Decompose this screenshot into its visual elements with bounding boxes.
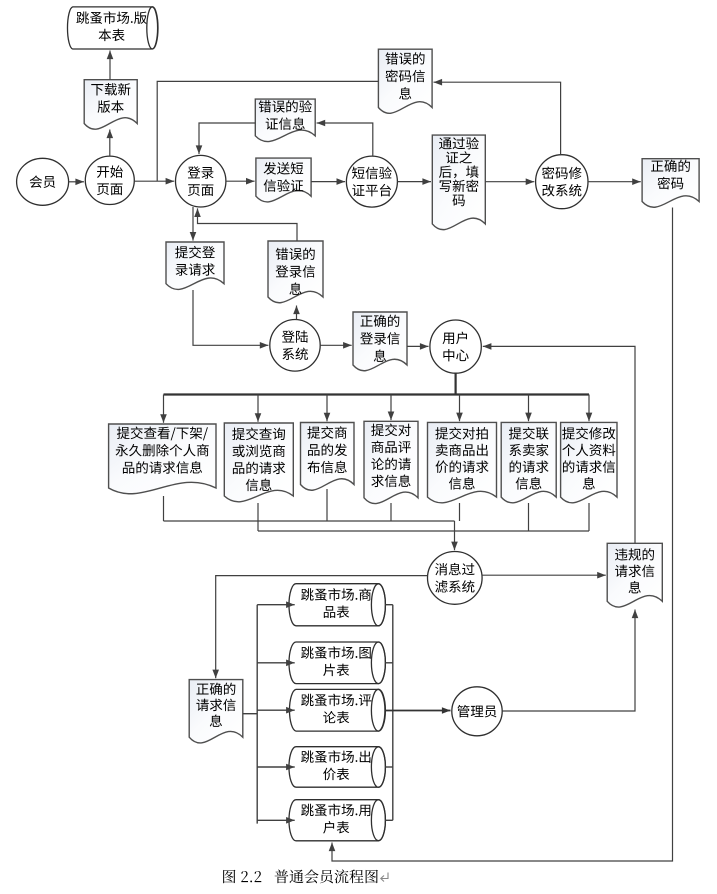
wire 消息过滤系统 left-down to 正确的请求信息 bbox=[216, 576, 428, 679]
document 通过验证之后填写新密码 bbox=[432, 135, 485, 230]
document 提交商品的发布信息 bbox=[301, 423, 355, 491]
wire bus drop 4 into request document 4 bbox=[390, 395, 392, 421]
process circle 开始页面 bbox=[85, 156, 134, 204]
process circle 用户中心 bbox=[430, 320, 481, 373]
wire 正确的请求信息 to left trunk bbox=[243, 713, 257, 715]
wire right trunk vertical bbox=[392, 605, 394, 821]
data store cylinder 跳蚤市场.版本表 bbox=[67, 7, 157, 49]
wire 短信验证平台 to 通过验证之后填写新密码 bbox=[397, 181, 431, 183]
document 提交对拍卖商品出价的请求信息 bbox=[428, 422, 497, 502]
wire stem from 提交查看 document bbox=[163, 496, 165, 521]
wire 管理员 right-up to 违规的请求信息 bbox=[502, 610, 635, 712]
wire 错误的密码信息 left-down joins main line bbox=[157, 81, 378, 181]
wire stem from 提交对商品评论 document bbox=[390, 503, 392, 521]
document 正确的请求信息 bbox=[189, 680, 243, 743]
document 提交查询或浏览商品的请求信息 bbox=[224, 423, 293, 502]
wire 密码修改系统 up-left to 错误的密码信息 bbox=[434, 82, 561, 155]
process circle 会员 bbox=[17, 158, 69, 205]
process circle 短信验证平台 bbox=[346, 156, 397, 207]
wire stem from 提交商品发布 document bbox=[326, 489, 328, 521]
document 提交对商品评论的请求信息 bbox=[364, 421, 418, 503]
wire stub 商品表 to right trunk bbox=[385, 604, 392, 606]
document 错误的验证信息 bbox=[255, 99, 315, 141]
data store cylinder 跳蚤市场.用户表 bbox=[289, 800, 385, 841]
document 提交查看/下架/永久删除个人商品的请求信息 bbox=[109, 424, 216, 494]
data store cylinder 跳蚤市场.图片表 bbox=[289, 642, 385, 684]
document 发送短信验证 bbox=[256, 158, 311, 202]
wire 评论表 to 管理员 bbox=[385, 710, 450, 712]
wire 正确的登录信息 to 用户中心 bbox=[407, 345, 429, 347]
document 正确的登录信息 bbox=[353, 312, 407, 371]
wire branch to 图片表 bbox=[257, 662, 295, 664]
wire 密码修改系统 to 正确的密码 bbox=[588, 181, 641, 183]
wire 开始页面 to 登录页面 bbox=[134, 180, 174, 182]
document 错误的密码信息 bbox=[378, 49, 432, 113]
process circle 密码修改系统 bbox=[536, 155, 588, 209]
document 提交联系卖家的请求信息 bbox=[501, 422, 556, 502]
wire branch to 评论表 bbox=[257, 709, 295, 711]
wire bus drop 3 into request document 3 bbox=[326, 395, 328, 422]
data store cylinder 跳蚤市场.出价表 bbox=[289, 747, 385, 788]
document 错误的登录信息 bbox=[268, 241, 323, 303]
document 下载新版本 bbox=[84, 80, 137, 130]
wire 登录页面 to 发送短信验证 bbox=[226, 180, 255, 182]
wire 登陆系统 to 正确的登录信息 bbox=[320, 344, 352, 346]
wire collector upper bbox=[164, 520, 455, 522]
wire 用户中心 stem to bus bbox=[455, 373, 457, 394]
process circle 登录页面 bbox=[176, 155, 226, 207]
wire 错误的验证信息 left-down to 登录页面 top bbox=[199, 123, 255, 154]
document 违规的请求信息 bbox=[607, 543, 662, 607]
wire stub 用户表 to right trunk bbox=[385, 819, 392, 821]
wire stem from 提交联系卖家 document bbox=[528, 503, 530, 531]
caption 图 2.2 普通会员流程图 bbox=[223, 870, 261, 883]
wire collector down into 消息过滤系统 bbox=[454, 521, 456, 550]
document 提交登录请求 bbox=[166, 242, 224, 289]
wire bus drop 1 into request document 1 bbox=[163, 395, 165, 423]
process circle 登陆系统 bbox=[270, 320, 320, 372]
wire bus drop 5 into request document 5 bbox=[459, 395, 461, 422]
wire branch to 用户表 bbox=[257, 819, 295, 821]
wire bus drop 2 into request document 2 bbox=[257, 395, 259, 422]
process circle 消息过滤系统 bbox=[428, 552, 483, 605]
data store cylinder 跳蚤市场.商品表 bbox=[289, 584, 385, 626]
wire 通过验证之后填写新密码 to 密码修改系统 bbox=[485, 181, 534, 183]
process circle 管理员 bbox=[452, 687, 502, 736]
wire 登录页面 down to 提交登录请求 bbox=[192, 207, 194, 241]
wire 发送短信验证 to 短信验证平台 bbox=[311, 181, 345, 183]
wire 下载新版本 up to 跳蚤市场.版本表 bbox=[109, 51, 111, 80]
wire bus line above request documents bbox=[164, 393, 590, 395]
wire 开始页面 up to 下载新版本 bbox=[109, 130, 111, 157]
wire bus drop 7 into request document 7 bbox=[588, 395, 590, 422]
wire bus drop 6 into request document 6 bbox=[528, 395, 530, 422]
wire stem from 提交修改资料 document bbox=[588, 503, 590, 531]
data store cylinder 跳蚤市场.评论表 bbox=[289, 689, 384, 731]
wire branch to 商品表 bbox=[257, 604, 295, 606]
document 正确的密码 bbox=[642, 159, 699, 208]
wire 短信验证平台 up-left to 错误的验证信息 bbox=[317, 123, 373, 156]
document 提交修改个人资料的请求信息 bbox=[561, 422, 617, 502]
wire branch to 出价表 bbox=[257, 766, 295, 768]
wire 提交登录请求 down-right to 登陆系统 bbox=[193, 290, 268, 345]
wire 正确的密码 down-left-up to 跳蚤市场.用户表 bbox=[332, 208, 673, 862]
paragraph mark bbox=[381, 873, 388, 882]
wire stub 图片表 to right trunk bbox=[385, 662, 392, 664]
wire stub 出价表 to right trunk bbox=[385, 766, 392, 768]
wire stem from 提交对拍卖出价 document bbox=[459, 503, 461, 521]
wire collector lower bbox=[258, 530, 589, 532]
wire left trunk vertical bbox=[256, 605, 258, 824]
wire stem from 提交查询 document bbox=[257, 503, 259, 531]
wire 会员 to 开始页面 bbox=[69, 181, 84, 183]
wire 违规的请求信息 up-left to 用户中心 bbox=[483, 346, 635, 543]
wire 错误的登录信息 up-left to 登录页面 bottom bbox=[198, 208, 298, 241]
wire 登陆系统 up to 错误的登录信息 bbox=[296, 306, 298, 320]
wire 消息过滤系统 to 违规的请求信息 bbox=[482, 574, 606, 576]
